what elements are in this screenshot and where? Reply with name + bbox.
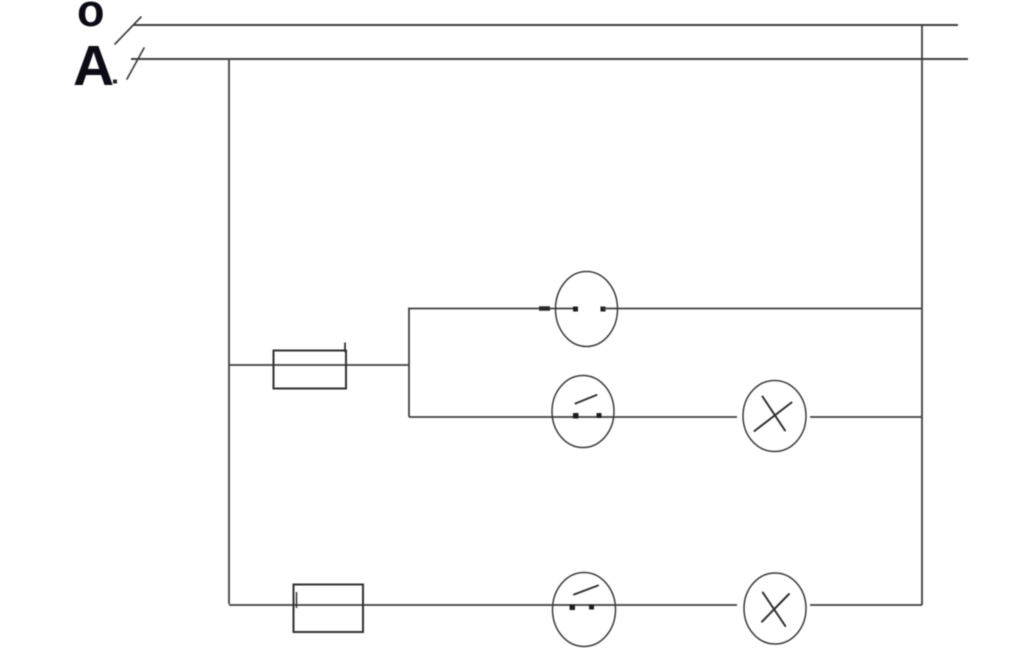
wire: branch 2 through switch S1 <box>409 416 737 418</box>
lamp H2 cross stroke 2 <box>762 594 789 622</box>
switch S1 lever <box>576 395 597 404</box>
fuse F2 stray tick <box>296 592 298 608</box>
wire: lamp H1 to right bus <box>810 416 922 418</box>
svg-text:A: A <box>73 34 114 98</box>
wire: bottom branch left segment <box>229 604 737 606</box>
wire: lamp H2 to right bus <box>810 604 922 606</box>
lamp H2 <box>744 573 806 644</box>
switch S2 left contact dot <box>570 605 576 611</box>
switch S2 lever <box>574 586 598 595</box>
wire: second bus line A <box>131 58 968 60</box>
phase mark slash on line o <box>115 17 141 44</box>
wire: socket to right bus <box>603 308 922 310</box>
period after A <box>113 80 117 84</box>
wire: left vertical feeder from line A <box>228 59 230 604</box>
socket outlet X1 <box>556 272 618 347</box>
switch S1 right contact dot <box>597 413 602 418</box>
socket X1 left contact dot <box>573 307 578 312</box>
terminal dash before socket <box>539 306 550 311</box>
lamp H1 cross stroke 1 <box>763 397 786 431</box>
fuse F1 stray tick <box>344 343 346 353</box>
lamp H1 cross stroke 2 <box>755 403 792 432</box>
fuse F2 <box>294 585 364 633</box>
switch S1 left contact dot <box>573 413 579 419</box>
wire: top bus line o <box>133 24 958 26</box>
wire: right vertical return to line o <box>921 24 923 605</box>
switch S2 right contact dot <box>589 605 594 610</box>
phase mark slash on line A <box>127 48 144 79</box>
lamp H1 <box>743 381 806 452</box>
wire: branch 1 to socket <box>409 308 575 310</box>
wire: feeder to fuse F1 <box>229 364 409 366</box>
switch S1 <box>552 376 614 448</box>
switch S2 <box>553 573 616 647</box>
fuse F1 <box>274 351 347 389</box>
lamp H2 cross stroke 1 <box>763 593 786 627</box>
wire: branch vertical junction <box>408 308 410 418</box>
socket X1 right contact dot <box>601 307 606 312</box>
svg-text:o: o <box>77 0 105 36</box>
